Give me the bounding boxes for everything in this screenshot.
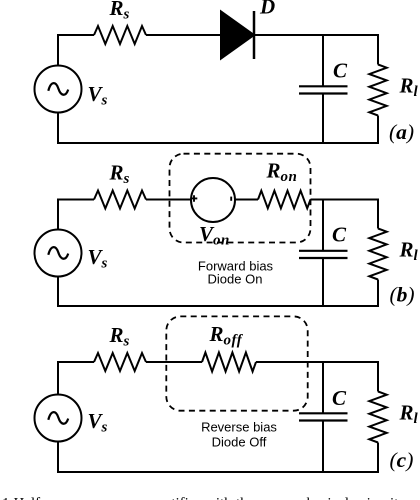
resistor Rl (a) — [369, 65, 386, 116]
svg-text:Rl: Rl — [399, 74, 419, 101]
wire c left rail lower — [57, 442, 59, 474]
wire c top-left horizontal — [57, 361, 94, 363]
wire b resistor to Von source — [146, 199, 191, 201]
dashed box diode-off model — [166, 316, 307, 410]
wire b capacitor branch lower — [322, 258, 324, 307]
wire a capacitor branch lower — [322, 94, 324, 145]
wire c Roff to right rail — [256, 361, 379, 363]
capacitor C (a) — [299, 86, 348, 93]
wire c bottom rail — [57, 471, 379, 473]
svg-text:1Half-waverectifierwiththephys: 1Half-waverectifierwiththephysicalcircui… — [2, 496, 399, 500]
wire a right rail upper — [377, 34, 379, 65]
wire b top-left horizontal — [57, 199, 94, 201]
svg-text:Von: Von — [199, 222, 230, 249]
wire b Ron to right rail — [311, 199, 380, 201]
wire c capacitor branch lower — [322, 421, 324, 474]
svg-text:C: C — [332, 223, 347, 247]
svg-text:Vs: Vs — [88, 82, 108, 109]
svg-text:(c): (c) — [390, 448, 414, 472]
resistor Rs (a) — [94, 26, 146, 44]
resistor Rs (c) — [94, 353, 146, 371]
wire a left rail lower — [57, 113, 59, 145]
resistor Ron — [258, 191, 311, 209]
svg-text:Rs: Rs — [109, 161, 130, 188]
svg-text:D: D — [259, 0, 275, 19]
wire a anode — [146, 34, 222, 36]
svg-text:Vs: Vs — [88, 409, 108, 436]
svg-text:(a): (a) — [389, 120, 414, 144]
resistor Roff — [202, 353, 256, 372]
wire c right rail upper — [377, 361, 379, 392]
wire b Von to Ron — [235, 199, 258, 201]
diode D — [221, 11, 254, 59]
wire b capacitor branch upper — [322, 200, 324, 251]
svg-text:Diode Off: Diode Off — [212, 435, 267, 450]
svg-text:Ron: Ron — [266, 159, 298, 186]
wire a top-left horizontal — [57, 34, 94, 36]
svg-text:(b): (b) — [390, 283, 415, 307]
wire c resistor to Roff — [146, 361, 202, 363]
svg-text:Roff: Roff — [209, 322, 244, 349]
wire a left rail upper — [57, 34, 59, 66]
source Vs (c) — [35, 395, 82, 442]
dashed box diode-on model — [170, 154, 311, 243]
svg-text:Diode On: Diode On — [208, 272, 263, 287]
svg-text:Rl: Rl — [399, 238, 419, 265]
source Von — [191, 178, 235, 222]
svg-text:C: C — [333, 59, 348, 83]
wire b bottom rail — [57, 305, 379, 307]
svg-text:Rs: Rs — [109, 323, 130, 350]
wire b left rail upper — [57, 199, 59, 230]
capacitor C (c) — [299, 413, 348, 420]
svg-text:Rs: Rs — [109, 0, 130, 23]
wire a bottom rail — [57, 142, 379, 144]
wire c capacitor branch upper — [322, 362, 324, 413]
svg-text:Reverse bias: Reverse bias — [201, 420, 277, 435]
resistor Rl (c) — [369, 392, 386, 443]
svg-text:Vs: Vs — [88, 245, 108, 272]
wire a capacitor branch upper — [322, 35, 324, 86]
wire b right rail upper — [377, 199, 379, 229]
capacitor C (b) — [299, 251, 348, 258]
wire c right rail lower — [377, 443, 379, 474]
wire b left rail lower — [57, 277, 59, 308]
svg-text:Rl: Rl — [399, 401, 419, 428]
resistor Rs (b) — [94, 191, 146, 209]
wire a right rail lower — [377, 116, 379, 145]
wire b right rail lower — [377, 280, 379, 308]
svg-text:C: C — [332, 386, 347, 410]
wire c left rail upper — [57, 361, 59, 395]
source Vs (b) — [35, 230, 82, 277]
resistor Rl (b) — [369, 229, 386, 280]
wire a cathode to right rail — [254, 34, 379, 36]
source Vs (a) — [35, 66, 82, 113]
